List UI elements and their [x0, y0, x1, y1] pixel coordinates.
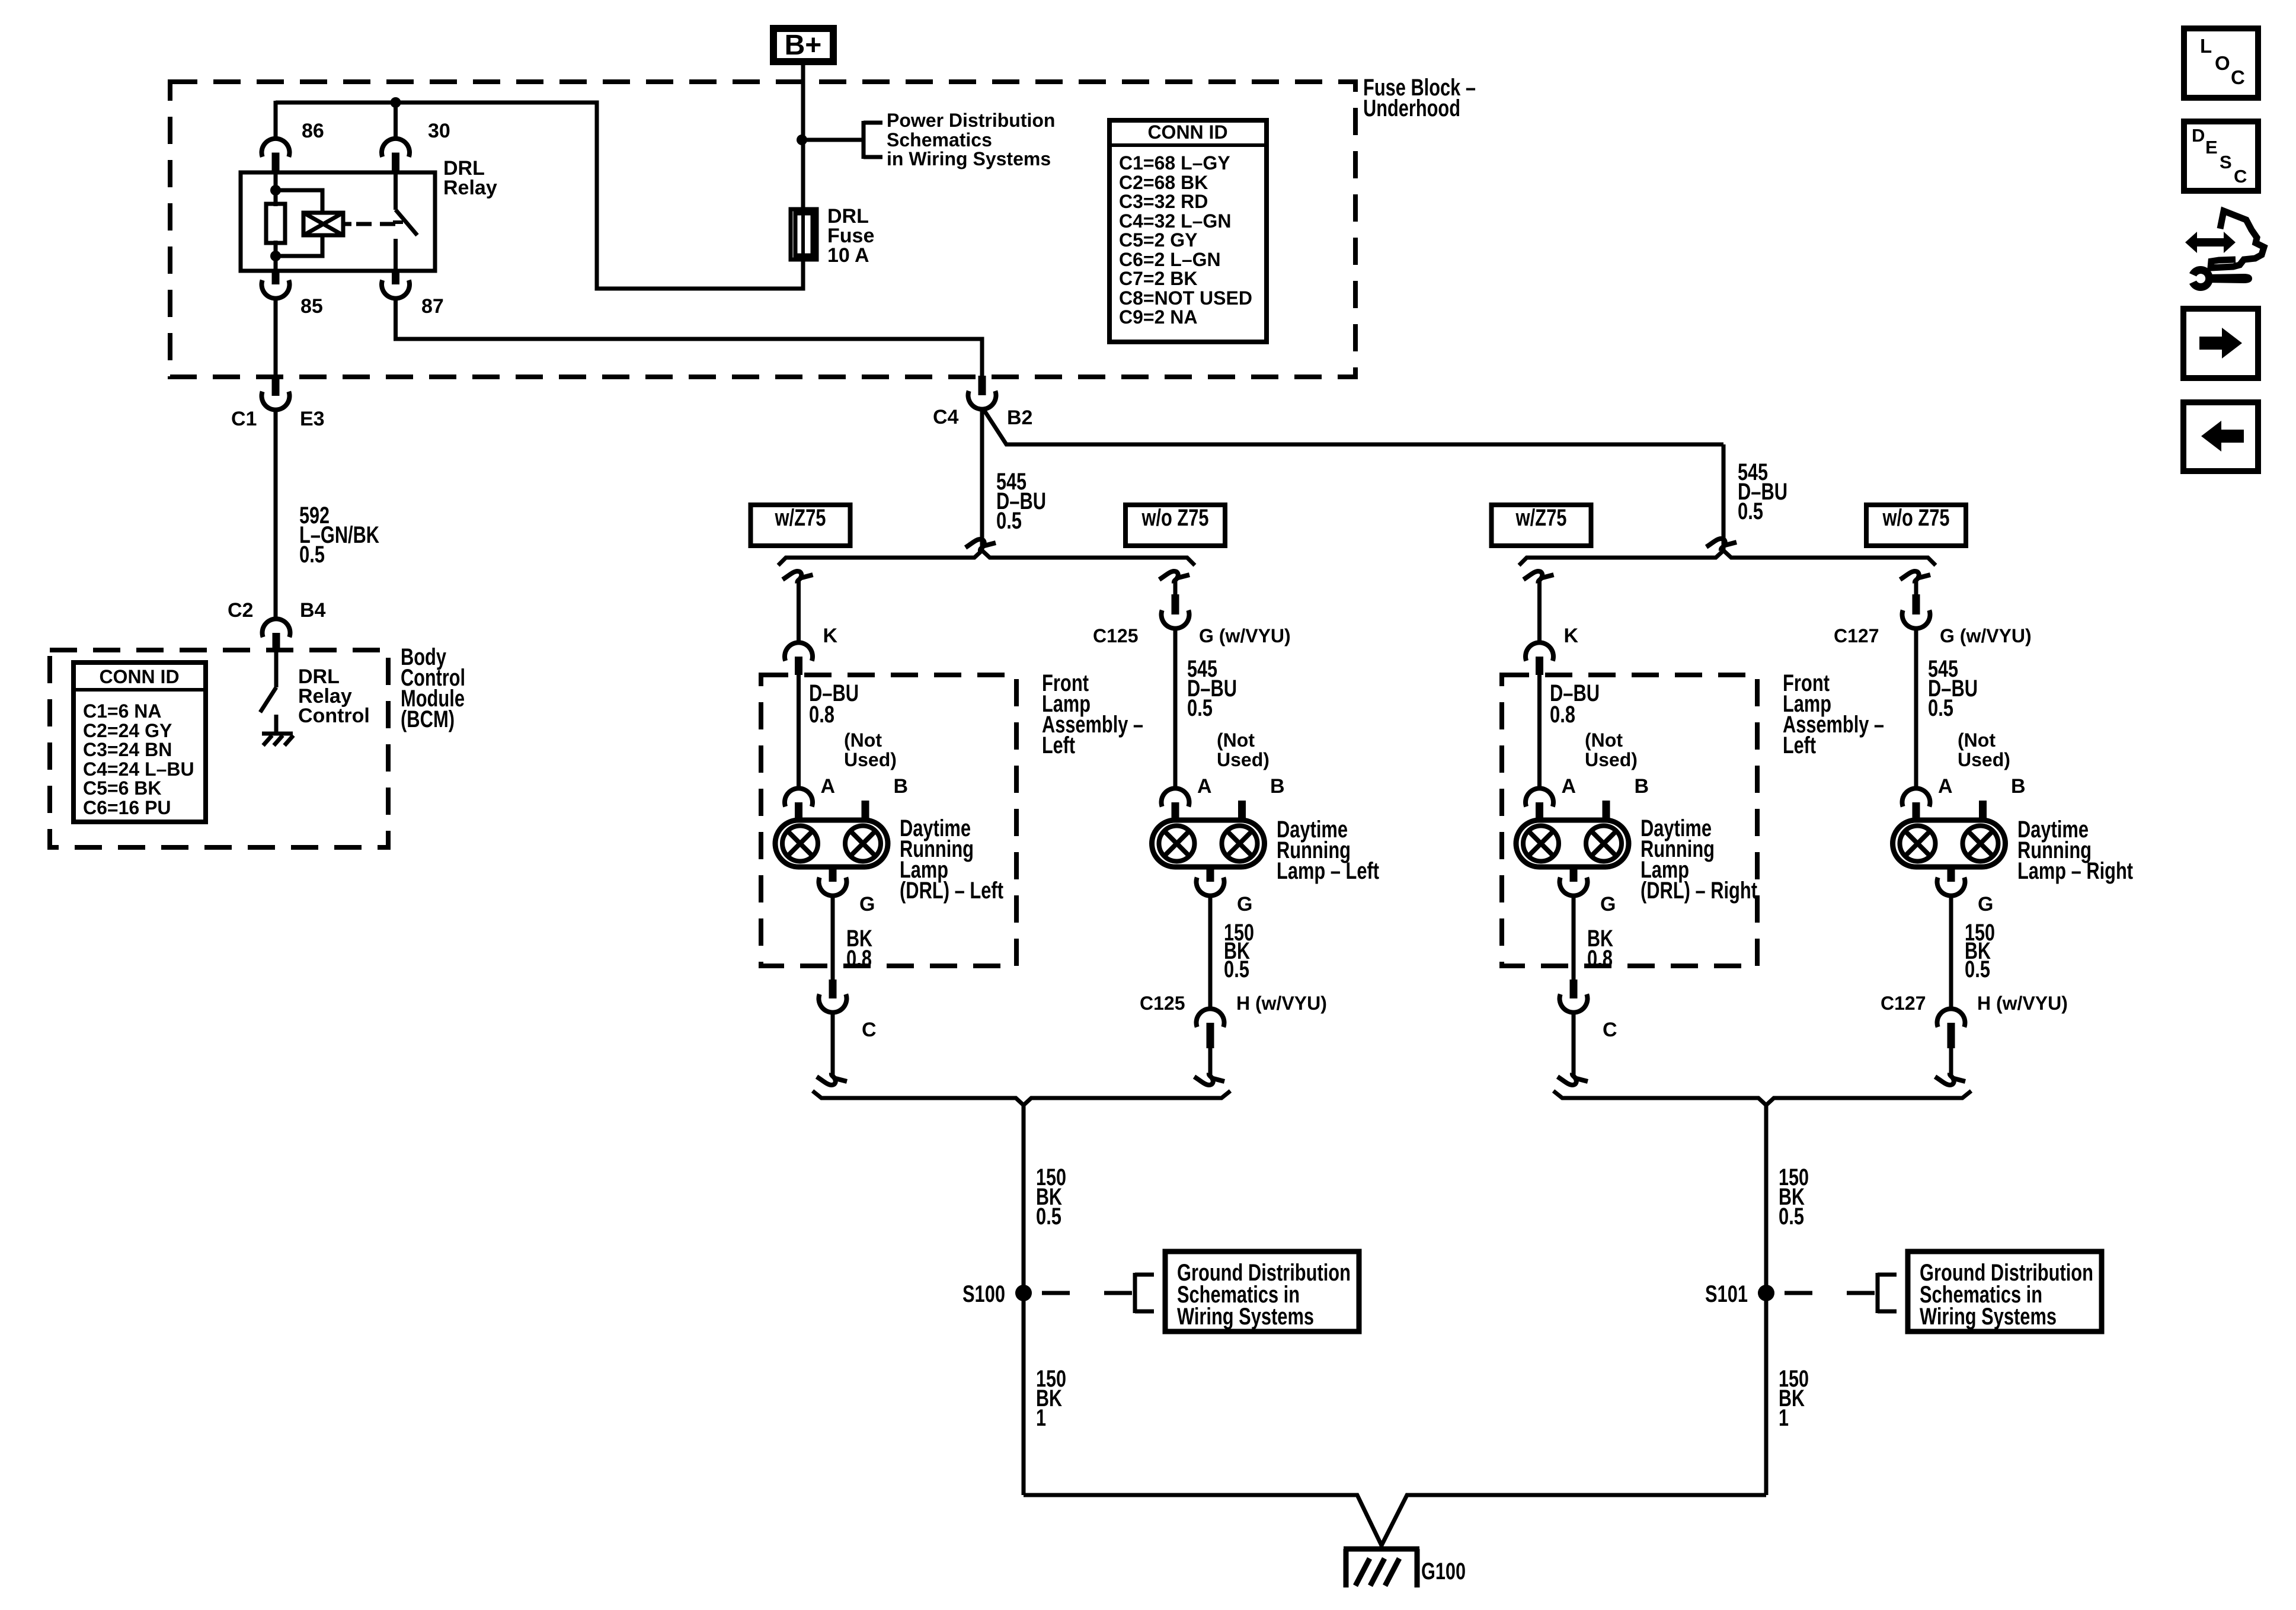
- break symbol branch w/Z75 (right): [1524, 571, 1554, 583]
- wire lamp C to ground rail (left): [831, 1012, 835, 1076]
- wire H to ground rail (left): [1208, 1048, 1213, 1076]
- break symbol branch w/o Z75 (right): [1900, 571, 1930, 583]
- option box w/Z75 (left): [751, 505, 850, 546]
- BCM CONN ID rows: [83, 700, 194, 818]
- svg-text:C: C: [1603, 1019, 1617, 1041]
- label G100: [1421, 1558, 1466, 1585]
- label C127 top (right): [1834, 625, 1879, 646]
- svg-text:0.5: 0.5: [299, 542, 325, 568]
- wire to relay pin 86: [274, 101, 278, 140]
- svg-text:Wiring Systems: Wiring Systems: [1920, 1304, 2057, 1330]
- svg-text:E3: E3: [300, 408, 325, 430]
- fuse block CONN ID table box: [1109, 120, 1267, 342]
- label w/o Z75 (left): [1141, 505, 1209, 531]
- label E3: [300, 408, 325, 430]
- label A (left DRL lamp): [821, 775, 836, 798]
- label Power Distribution Schematics in Wiring Systems: [887, 110, 1055, 169]
- svg-text:B4: B4: [300, 599, 326, 622]
- label (Not Used) lamp A (left): [844, 729, 897, 770]
- break symbol lamp C drop (left): [817, 1073, 847, 1085]
- ground G100 symbol: [1344, 1544, 1419, 1587]
- connector K (right): [1526, 642, 1553, 675]
- svg-text:Schematics: Schematics: [887, 129, 992, 151]
- svg-text:C8=NOT USED: C8=NOT USED: [1119, 287, 1252, 309]
- option box w/Z75 (right): [1492, 505, 1591, 546]
- svg-text:Wiring Systems: Wiring Systems: [1177, 1304, 1314, 1330]
- label K (left): [823, 625, 838, 647]
- wire to relay pin 30: [394, 103, 398, 140]
- mechanical link (dashed) coil to switch: [356, 222, 403, 224]
- off-page bracket ground distribution (S101): [1878, 1273, 1897, 1313]
- svg-text:C: C: [2234, 166, 2247, 187]
- wire 545 D-BU lamp branch (right): [1914, 628, 1918, 789]
- svg-text:C4=24 L–BU: C4=24 L–BU: [83, 758, 194, 780]
- fuse block CONN ID header: [1147, 121, 1227, 143]
- svg-text:Used): Used): [1585, 749, 1638, 770]
- svg-text:0.5: 0.5: [1224, 956, 1249, 982]
- label G (left lamp): [1237, 893, 1252, 916]
- label H (w/VYU) (right): [1977, 993, 2068, 1014]
- svg-text:0.5: 0.5: [1779, 1204, 1804, 1230]
- icon DESC box: [2184, 121, 2258, 191]
- off-page bracket ground distribution (S100): [1135, 1273, 1154, 1313]
- wire 150 BK 0.5 (left): [1208, 895, 1213, 1009]
- break symbol H drop (right): [1935, 1073, 1965, 1085]
- lamp pin A connector w/o Z75 (right): [1902, 788, 1930, 821]
- front lamp assembly boundary dashed (left): [761, 675, 1016, 966]
- junction node on B+ wire: [797, 135, 807, 145]
- svg-text:C: C: [2231, 66, 2245, 88]
- relay pin 87 connector: [382, 271, 410, 299]
- svg-text:O: O: [2215, 52, 2230, 74]
- junction node coil bottom: [270, 251, 281, 261]
- svg-text:(DRL) – Right: (DRL) – Right: [1641, 878, 1757, 904]
- label w/Z75 (left): [775, 505, 826, 531]
- daytime running lamp (left): [1152, 820, 1265, 867]
- svg-text:1: 1: [1036, 1405, 1046, 1431]
- svg-text:CONN ID: CONN ID: [1147, 121, 1227, 143]
- label B (right DRL lamp): [1635, 775, 1649, 798]
- dashed reference wire S101: [1774, 1291, 1878, 1295]
- label DRL Relay: [443, 157, 497, 199]
- svg-text:87: 87: [421, 295, 444, 318]
- relay pin 30 connector: [382, 139, 410, 172]
- svg-text:B2: B2: [1007, 406, 1032, 429]
- label C125 bottom (left): [1140, 993, 1185, 1014]
- svg-text:C127: C127: [1834, 625, 1879, 646]
- lamp pin B stub (right lamp): [1979, 801, 1987, 821]
- svg-text:0.5: 0.5: [996, 508, 1022, 534]
- wire to relay coil bottom: [276, 235, 322, 256]
- wire 592 L-GN/BK: [274, 409, 278, 620]
- label (Not Used) lamp A (right): [1585, 729, 1638, 770]
- lamp G pin connector (left lamp): [1196, 867, 1224, 896]
- split rail (right): [1519, 550, 1936, 565]
- svg-text:(DRL) – Left: (DRL) – Left: [900, 878, 1003, 904]
- label B (left DRL lamp): [894, 775, 909, 798]
- resistor (relay parallel resistor): [266, 204, 285, 243]
- label A (left lamp): [1197, 775, 1212, 798]
- svg-text:G: G: [1237, 893, 1252, 916]
- svg-text:S: S: [2220, 152, 2232, 172]
- svg-text:C127: C127: [1881, 993, 1926, 1014]
- svg-text:w/Z75: w/Z75: [1515, 505, 1567, 531]
- label C (right): [1603, 1019, 1617, 1041]
- lamp pin A connector w/o Z75 (left): [1162, 788, 1189, 821]
- svg-text:G (w/VYU): G (w/VYU): [1940, 625, 2032, 646]
- svg-text:A: A: [821, 775, 836, 798]
- BCM CONN ID header: [99, 666, 179, 687]
- break symbol branch w/o Z75 (left): [1159, 571, 1189, 583]
- icon wrench/adjust: [2185, 211, 2264, 291]
- lamp pin B stub (right DRL lamp): [1603, 801, 1610, 821]
- BCM internal ground symbol: [262, 734, 293, 745]
- label Ground Distribution Schematics (S100): [1177, 1260, 1351, 1330]
- svg-text:B+: B+: [785, 30, 822, 61]
- svg-text:C4: C4: [933, 406, 959, 428]
- svg-text:S100: S100: [962, 1281, 1005, 1307]
- label 150 BK 0.5 (right): [1965, 920, 1995, 982]
- svg-text:H (w/VYU): H (w/VYU): [1977, 993, 2068, 1014]
- label Front Lamp Assembly (right): [1783, 670, 1884, 758]
- label 150 BK 0.5 (left): [1224, 920, 1254, 982]
- svg-text:0.8: 0.8: [1550, 702, 1575, 728]
- wire 150 BK 0.5 (right): [1949, 895, 1953, 1009]
- BCM boundary (dashed): [50, 650, 388, 847]
- svg-text:A: A: [1938, 775, 1953, 798]
- svg-text:85: 85: [300, 295, 323, 318]
- label D-BU 0.8 (right): [1550, 680, 1600, 728]
- svg-text:in Wiring Systems: in Wiring Systems: [887, 148, 1051, 169]
- svg-text:C5=2 GY: C5=2 GY: [1119, 229, 1198, 251]
- svg-text:G: G: [1600, 893, 1616, 916]
- svg-text:C1: C1: [231, 408, 257, 430]
- svg-text:C6=2 L–GN: C6=2 L–GN: [1119, 249, 1221, 270]
- relay switch lower contact: [394, 239, 398, 271]
- wire to relay coil top: [276, 190, 322, 213]
- connector C125 H (left): [1196, 1009, 1224, 1048]
- label Front Lamp Assembly (left): [1042, 670, 1143, 758]
- label G (w/VYU) (left): [1199, 625, 1291, 646]
- label Daytime Running Lamp (left): [1277, 817, 1379, 884]
- ground distribution reference box (S100): [1165, 1251, 1359, 1331]
- svg-text:B: B: [2011, 775, 2026, 798]
- svg-text:C6=16 PU: C6=16 PU: [83, 797, 171, 818]
- svg-text:w/o Z75: w/o Z75: [1141, 505, 1209, 531]
- label K (right): [1564, 625, 1579, 647]
- label C4: [933, 406, 959, 428]
- daytime running lamp (right): [1893, 820, 2006, 867]
- BCM DRL relay control switch arm: [260, 687, 276, 712]
- svg-text:G100: G100: [1421, 1558, 1466, 1585]
- option box w/o Z75 (right): [1866, 505, 1966, 546]
- connector C127 G (right): [1902, 594, 1930, 629]
- label D-BU 0.8 (left): [809, 680, 859, 728]
- fuse block CONN ID rows: [1119, 152, 1252, 328]
- svg-text:C125: C125: [1140, 993, 1185, 1014]
- svg-text:w/o Z75: w/o Z75: [1882, 505, 1950, 531]
- lamp pin B stub (left DRL lamp): [862, 801, 869, 821]
- label (Not Used) lamp B (left): [1217, 729, 1269, 770]
- wire C2 into BCM switch: [274, 652, 279, 687]
- break symbol lamp C drop (right): [1558, 1073, 1588, 1085]
- lamp pin A connector (left): [785, 788, 813, 821]
- svg-text:86: 86: [302, 120, 324, 142]
- svg-text:C3=24 BN: C3=24 BN: [83, 739, 172, 760]
- wire S100 to G100: [1024, 1495, 1382, 1545]
- svg-text:C9=2 NA: C9=2 NA: [1119, 306, 1198, 328]
- svg-text:C2: C2: [228, 599, 253, 622]
- label C1: [231, 408, 257, 430]
- wire join rail to splice S101: [1764, 1103, 1769, 1495]
- label G (right DRL lamp): [1600, 893, 1616, 916]
- label 545 D-BU 0.5 lamp branch (right): [1928, 656, 1978, 721]
- ground distribution reference box (S101): [1908, 1251, 2102, 1331]
- relay pin 85 connector: [262, 271, 290, 299]
- svg-text:(Not: (Not: [1958, 729, 1996, 751]
- svg-text:G (w/VYU): G (w/VYU): [1199, 625, 1291, 646]
- wire 545 D-BU (left drop): [980, 408, 984, 553]
- svg-text:(Not: (Not: [844, 729, 882, 751]
- icon forward arrow box: [2183, 309, 2258, 378]
- svg-text:B: B: [1635, 775, 1649, 798]
- svg-text:30: 30: [428, 120, 450, 142]
- label 545 D-BU 0.5 (right feed): [1738, 459, 1787, 524]
- connector C lamp (right): [1559, 980, 1587, 1013]
- lamp G pin connector (left DRL lamp): [818, 867, 846, 896]
- connector C lamp (left): [818, 980, 846, 1013]
- svg-text:Control: Control: [298, 705, 370, 727]
- label A (right lamp): [1938, 775, 1953, 798]
- wire H to ground rail (right): [1949, 1048, 1953, 1076]
- wire squiggle to connector C127 (right): [1914, 579, 1918, 596]
- svg-text:Power Distribution: Power Distribution: [887, 110, 1055, 131]
- label DRL Relay Control: [298, 665, 370, 727]
- label BK 0.8 (left): [846, 926, 872, 972]
- svg-text:(Not: (Not: [1585, 729, 1623, 751]
- svg-text:C125: C125: [1093, 625, 1139, 646]
- wire D-BU 0.8 (left): [797, 675, 801, 789]
- svg-text:C4=32 L–GN: C4=32 L–GN: [1119, 210, 1231, 232]
- relay coil (box with X): [303, 213, 351, 235]
- junction node coil top: [270, 185, 281, 196]
- svg-text:K: K: [823, 625, 838, 647]
- wire branch w/Z75 drop (left): [797, 580, 801, 644]
- svg-text:C5=6 BK: C5=6 BK: [83, 777, 162, 799]
- label Daytime Running Lamp DRL (right): [1641, 815, 1757, 904]
- svg-text:S101: S101: [1705, 1281, 1748, 1307]
- label G (right lamp): [1978, 893, 1993, 916]
- off-page bracket (power distribution): [864, 121, 882, 159]
- svg-text:CONN ID: CONN ID: [99, 666, 179, 687]
- label Body Control Module (BCM): [401, 644, 465, 732]
- wire 87 to connector C4: [396, 297, 983, 377]
- power feed B+ terminal box: [773, 28, 833, 62]
- BCM switch lower stub: [274, 715, 279, 734]
- svg-text:B: B: [894, 775, 909, 798]
- relay K1 (DRL Relay) box: [241, 172, 435, 271]
- relay switch fixed contact (from pin 30): [394, 172, 398, 210]
- svg-text:C1=68 L–GY: C1=68 L–GY: [1119, 152, 1230, 174]
- label 87: [421, 295, 444, 318]
- svg-text:C2=68 BK: C2=68 BK: [1119, 172, 1208, 193]
- daytime running lamp DRL (right): [1516, 820, 1629, 867]
- svg-text:0.5: 0.5: [1036, 1204, 1061, 1230]
- label A (right DRL lamp): [1562, 775, 1576, 798]
- svg-text:Used): Used): [1217, 749, 1269, 770]
- label C127 bottom (right): [1881, 993, 1926, 1014]
- svg-text:0.5: 0.5: [1187, 695, 1213, 721]
- svg-text:Lamp – Left: Lamp – Left: [1277, 858, 1379, 884]
- label C2: [228, 599, 253, 622]
- svg-text:Relay: Relay: [443, 177, 497, 199]
- wire branch w/Z75 drop (right): [1537, 580, 1542, 644]
- wire squiggle to connector C125 (left): [1173, 579, 1178, 596]
- relay coil branch wire: [274, 172, 278, 206]
- svg-text:Underhood: Underhood: [1363, 95, 1460, 121]
- label H (w/VYU) (left): [1236, 993, 1327, 1014]
- svg-text:C7=2 BK: C7=2 BK: [1119, 268, 1198, 289]
- option box w/o Z75 (left): [1125, 505, 1225, 546]
- relay coil branch wire bottom: [274, 241, 278, 271]
- svg-text:K: K: [1564, 625, 1579, 647]
- wire BK 0.8 (left): [831, 895, 835, 980]
- svg-text:(BCM): (BCM): [401, 706, 455, 732]
- connector C127 H (right): [1937, 1009, 1965, 1048]
- lamp G pin connector (right DRL lamp): [1559, 867, 1587, 896]
- label C (left): [862, 1019, 877, 1041]
- lamp pin B stub (left lamp): [1238, 801, 1246, 821]
- break symbol H drop (left): [1194, 1073, 1224, 1085]
- BCM CONN ID table box: [73, 662, 206, 822]
- lamp pin A connector (right): [1526, 788, 1553, 821]
- label 85: [300, 295, 323, 318]
- wire D-BU 0.8 (right): [1537, 675, 1542, 789]
- svg-text:0.5: 0.5: [1738, 498, 1763, 524]
- svg-text:Used): Used): [844, 749, 897, 770]
- svg-text:D: D: [2192, 125, 2205, 146]
- connector C4/B2 (fuse block output): [968, 376, 996, 409]
- connector C2/B4 (into BCM): [262, 619, 290, 652]
- connector K (left): [785, 642, 813, 675]
- svg-text:(Not: (Not: [1217, 729, 1255, 751]
- daytime running lamp DRL (left): [775, 820, 888, 867]
- icon back arrow box: [2183, 402, 2258, 471]
- svg-text:10 A: 10 A: [827, 244, 869, 267]
- svg-text:L: L: [2200, 35, 2212, 57]
- icon LOC box: [2184, 28, 2258, 98]
- svg-text:C: C: [862, 1019, 877, 1041]
- label C125 top (left): [1093, 625, 1139, 646]
- front lamp assembly boundary dashed (right): [1502, 675, 1757, 966]
- label Ground Distribution Schematics (S101): [1920, 1260, 2093, 1330]
- ground join rail (left): [813, 1091, 1230, 1105]
- junction node above relay pin 30: [391, 97, 401, 108]
- label B4: [300, 599, 326, 622]
- splice S100: [1015, 1285, 1032, 1301]
- wire BK 0.8 (right): [1572, 895, 1576, 980]
- svg-text:0.8: 0.8: [809, 702, 834, 728]
- label Daytime Running Lamp DRL (left): [900, 815, 1003, 904]
- break symbol on left feed: [965, 539, 996, 551]
- label 86: [302, 120, 324, 142]
- label 150 BK 1 below S101: [1779, 1366, 1809, 1431]
- relay pin 86 connector: [262, 139, 290, 172]
- label 150 BK 0.5 above S101: [1779, 1164, 1809, 1230]
- label Fuse Block - Underhood: [1363, 75, 1476, 121]
- connector C1/E3 (fuse block to BCM): [262, 376, 290, 410]
- label S101: [1705, 1281, 1748, 1307]
- label w/o Z75 (right): [1882, 505, 1950, 531]
- label B (left lamp): [1270, 775, 1285, 798]
- wire lamp C to ground rail (right): [1572, 1012, 1576, 1076]
- label DRL Fuse 10 A: [827, 205, 874, 267]
- svg-text:0.8: 0.8: [846, 946, 872, 972]
- dashed reference wire S100: [1032, 1291, 1135, 1295]
- wire fuse output to relay pins 86/30: [276, 103, 803, 289]
- label B (right lamp): [2011, 775, 2026, 798]
- svg-text:Used): Used): [1958, 749, 2010, 770]
- svg-text:H (w/VYU): H (w/VYU): [1236, 993, 1327, 1014]
- svg-text:0.8: 0.8: [1587, 946, 1613, 972]
- label S100: [962, 1281, 1005, 1307]
- wire B2 to right-side feed: [983, 409, 1723, 444]
- svg-text:C1=6 NA: C1=6 NA: [83, 700, 162, 722]
- label G (left DRL lamp): [859, 893, 875, 916]
- label BK 0.8 (right): [1587, 926, 1613, 972]
- label 150 BK 0.5 above S100: [1036, 1164, 1066, 1230]
- label w/Z75 (right): [1515, 505, 1567, 531]
- label 545 D-BU 0.5 lamp branch (left): [1187, 656, 1237, 721]
- label 30: [428, 120, 450, 142]
- fuse block underhood boundary (dashed): [170, 82, 1355, 377]
- svg-text:Left: Left: [1783, 732, 1816, 758]
- wire 545 D-BU (right drop): [1722, 444, 1726, 553]
- svg-text:C2=24 GY: C2=24 GY: [83, 720, 172, 741]
- lamp G pin connector (right lamp): [1937, 867, 1965, 896]
- label (Not Used) lamp B (right): [1958, 729, 2010, 770]
- label 150 BK 1 below S100: [1036, 1366, 1066, 1431]
- svg-text:Left: Left: [1042, 732, 1075, 758]
- label B2: [1007, 406, 1032, 429]
- label 545 D-BU 0.5 (left feed): [996, 469, 1046, 534]
- svg-text:A: A: [1197, 775, 1212, 798]
- label Daytime Running Lamp (right): [2017, 817, 2133, 884]
- wire 85 to connector C1: [274, 297, 278, 377]
- wire B+ to DRL fuse: [801, 62, 805, 209]
- fuse F (DRL Fuse 10A) symbol: [791, 209, 817, 260]
- splice S101: [1758, 1285, 1774, 1301]
- svg-text:G: G: [1978, 893, 1993, 916]
- wire branch to power distribution reference: [802, 138, 864, 142]
- svg-text:Lamp – Right: Lamp – Right: [2017, 858, 2133, 884]
- label G (w/VYU) (right): [1940, 625, 2032, 646]
- label 592 L-GN/BK 0.5: [299, 502, 379, 568]
- wire join rail to splice S100: [1022, 1103, 1026, 1495]
- break symbol on right feed: [1706, 539, 1737, 550]
- svg-text:0.5: 0.5: [1965, 956, 1990, 982]
- wire S101 to G100: [1382, 1495, 1766, 1545]
- svg-text:G: G: [859, 893, 875, 916]
- svg-text:A: A: [1562, 775, 1576, 798]
- svg-text:B: B: [1270, 775, 1285, 798]
- label B+: [785, 30, 822, 61]
- ground join rail (right): [1553, 1091, 1971, 1105]
- svg-text:1: 1: [1779, 1405, 1789, 1431]
- break symbol branch w/Z75 (left): [783, 571, 813, 583]
- split rail (left): [778, 550, 1195, 565]
- svg-text:E: E: [2205, 137, 2218, 158]
